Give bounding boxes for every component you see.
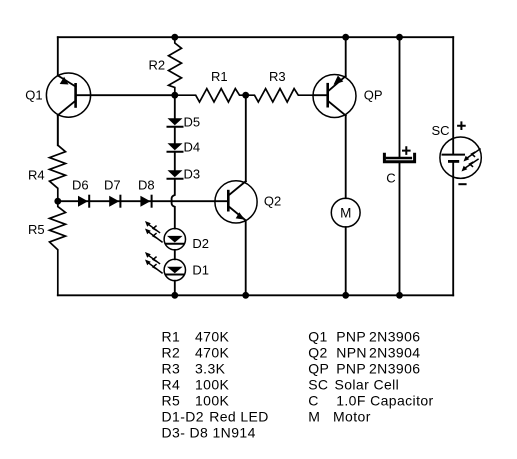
svg-text:R1: R1 [162, 328, 181, 344]
transistor QP [313, 75, 356, 118]
svg-text:D2: D2 [192, 236, 209, 251]
svg-text:R3: R3 [269, 69, 286, 84]
svg-text:3.3K: 3.3K [195, 360, 226, 376]
svg-text:C: C [308, 392, 319, 408]
wire motor to bottom rail [345, 227, 347, 295]
resistor R3 [246, 89, 314, 102]
LED D2 [145, 221, 186, 250]
svg-text:D5: D5 [184, 114, 201, 129]
svg-text:R5: R5 [162, 392, 181, 408]
diode D4 [168, 127, 183, 152]
wire D1 to bottom rail [174, 281, 176, 296]
svg-text:C: C [386, 170, 395, 185]
wire left rail upper [57, 37, 59, 75]
svg-text:Q1: Q1 [25, 87, 42, 102]
svg-text:D7: D7 [104, 177, 121, 192]
svg-text:Q1: Q1 [308, 328, 327, 344]
svg-text:Q2: Q2 [264, 194, 281, 209]
svg-text:D8: D8 [138, 177, 155, 192]
wire bottom rail [58, 294, 453, 296]
svg-text:NPN: NPN [336, 344, 367, 360]
LED D1 [145, 252, 186, 281]
resistor R1 [175, 89, 246, 102]
svg-text:D6: D6 [72, 177, 89, 192]
diode D8 [140, 196, 151, 207]
junction top C [396, 34, 403, 41]
svg-text:R2: R2 [162, 344, 181, 360]
junction top QP [342, 34, 349, 41]
wire right rail upper SC [452, 37, 454, 154]
svg-text:2N3906: 2N3906 [369, 328, 420, 344]
svg-text:D4: D4 [184, 139, 201, 154]
wire D2 to D1 [174, 250, 176, 259]
junction top R2 [171, 34, 178, 41]
wire D3 to LED D2 with jog [172, 179, 175, 229]
transistor Q2 [215, 181, 257, 223]
svg-text:PNP: PNP [336, 328, 366, 344]
svg-text:Q2: Q2 [308, 344, 327, 360]
wire Q1 base to node [76, 94, 175, 96]
wire Q2 collector to R1 R3 node [245, 95, 247, 181]
wire Q2 emitter to bottom rail [245, 220, 247, 295]
resistor R2 [169, 37, 182, 95]
svg-text:SC: SC [308, 376, 328, 392]
resistor R4 [50, 115, 66, 201]
svg-text:R4: R4 [162, 376, 181, 392]
svg-text:PNP: PNP [336, 360, 366, 376]
wire QP collector to motor [345, 116, 347, 199]
wire base row [58, 200, 229, 202]
svg-text:D1-D2: D1-D2 [162, 408, 204, 424]
junction node R4 R5 D6 [54, 198, 61, 205]
diode D6 [78, 196, 89, 207]
svg-text:M: M [340, 205, 351, 220]
svg-text:Motor: Motor [333, 408, 371, 424]
svg-text:100K: 100K [195, 392, 230, 408]
svg-text:R5: R5 [28, 222, 45, 237]
svg-text:2N3904: 2N3904 [369, 344, 420, 360]
junction bottom Q2 [242, 292, 249, 299]
svg-text:QP: QP [364, 88, 383, 103]
svg-text:470K: 470K [195, 328, 230, 344]
diode D3 [168, 152, 183, 179]
svg-text:R4: R4 [28, 168, 45, 183]
svg-text:R1: R1 [211, 69, 228, 84]
svg-text:100K: 100K [195, 376, 230, 392]
junction node R2 bottom [171, 92, 178, 99]
svg-text:Solar Cell: Solar Cell [335, 376, 400, 392]
svg-text:Red LED: Red LED [209, 408, 269, 424]
wire right rail lower SC [452, 161, 454, 295]
wire QP emitter to top rail [345, 37, 347, 76]
junction bottom motor [342, 292, 349, 299]
svg-text:D3- D8: D3- D8 [162, 424, 209, 440]
transistor Q1 [46, 73, 90, 117]
solar cell SC [440, 122, 481, 184]
junction node R1 R3 [242, 92, 249, 99]
diode D5 [168, 95, 183, 127]
motor M [331, 198, 360, 227]
svg-text:R2: R2 [149, 58, 166, 73]
svg-text:D1: D1 [192, 263, 209, 278]
svg-text:QP: QP [308, 360, 329, 376]
diode D7 [109, 196, 120, 207]
junction bottom D1 [171, 292, 178, 299]
svg-text:2N3906: 2N3906 [369, 360, 420, 376]
svg-text:SC: SC [432, 123, 450, 138]
svg-text:470K: 470K [195, 344, 230, 360]
svg-text:D3: D3 [184, 166, 201, 181]
resistor R5 [50, 201, 66, 295]
svg-text:1.0F Capacitor: 1.0F Capacitor [336, 392, 433, 408]
svg-text:1N914: 1N914 [213, 424, 256, 440]
svg-text:M: M [308, 408, 320, 424]
junction bottom C [396, 292, 403, 299]
wire left rail Q1 to R4 [57, 115, 59, 145]
svg-text:R3: R3 [162, 360, 181, 376]
capacitor C [384, 37, 414, 295]
wire top rail [58, 36, 453, 38]
